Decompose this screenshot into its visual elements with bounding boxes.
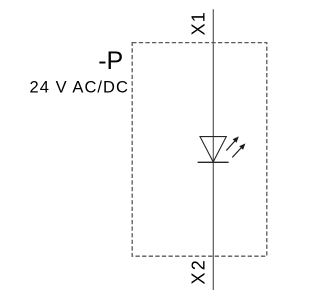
svg-text:X1: X1 xyxy=(189,11,209,35)
label 24 V AC/DC xyxy=(30,79,129,97)
svg-text:24 V AC/DC: 24 V AC/DC xyxy=(30,79,129,97)
LED cathode bar xyxy=(198,161,229,163)
LED emission arrow 1 xyxy=(226,136,239,150)
LED lamp: diode triangle xyxy=(200,137,226,162)
enclosure dashed boundary xyxy=(132,43,267,257)
svg-text:X2: X2 xyxy=(189,258,209,284)
terminal X1 xyxy=(189,11,209,35)
LED emission arrow 2 xyxy=(232,143,245,157)
wire X1 to X2 xyxy=(212,9,214,290)
label -P xyxy=(98,47,123,75)
terminal X2 xyxy=(189,258,209,284)
svg-text:-P: -P xyxy=(98,47,123,75)
